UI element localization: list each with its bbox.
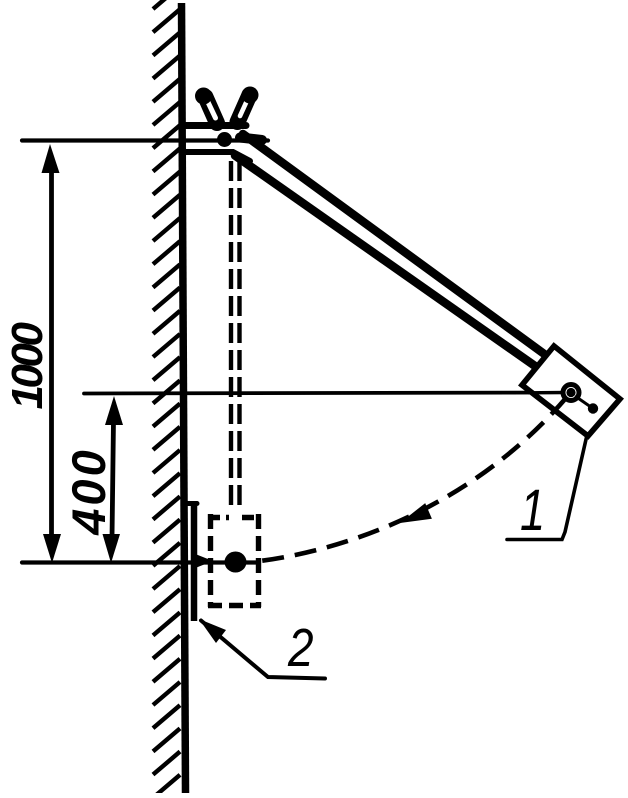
- wall plate top hook: [187, 501, 197, 506]
- arm upper line: [243, 134, 547, 356]
- wall line: [182, 3, 186, 793]
- folded box dashed right edge: [256, 514, 261, 607]
- arc arrowhead: [400, 503, 432, 523]
- wall bracket bottom line: [184, 152, 250, 161]
- folded box dashed bottom edge: [208, 603, 261, 608]
- box pivot circle: [563, 385, 579, 401]
- wall bracket top line: [184, 122, 246, 129]
- wall hatching: [153, 0, 180, 798]
- folded box dashed left edge: [208, 514, 213, 607]
- arrow against plate: [194, 554, 213, 569]
- arrow 400 bottom: [103, 534, 121, 563]
- arrow 1000 bottom: [43, 534, 61, 563]
- arrow 1000 top: [42, 144, 60, 173]
- fork prong right: [238, 87, 259, 123]
- arrow 400 top: [105, 396, 123, 425]
- wall plate item 2: [191, 501, 198, 621]
- arm lower line: [235, 156, 535, 367]
- dimension line 1000: [49, 170, 54, 538]
- folded arm tube dashed right: [237, 161, 241, 509]
- svg-text:1: 1: [520, 479, 545, 544]
- box small dot: [588, 403, 598, 413]
- fork junction stub: [240, 138, 262, 141]
- upper pivot dot: [217, 132, 232, 147]
- folded arm tube dashed left: [229, 161, 233, 509]
- top extension line: [22, 138, 268, 142]
- svg-text:400: 400: [62, 447, 115, 535]
- swivel box: [522, 346, 620, 436]
- middle extension line: [84, 393, 566, 394]
- folded box dashed top edge: [208, 515, 261, 520]
- leader 2 arrowhead: [199, 619, 226, 643]
- leader line 1: [507, 409, 593, 540]
- svg-text:1000: 1000: [3, 322, 52, 410]
- folded pivot dot: [225, 552, 247, 573]
- mid line into box: [528, 391, 566, 395]
- fork prong left: [195, 88, 217, 124]
- box pivot dot: [566, 388, 575, 397]
- bottom extension line: [22, 560, 256, 564]
- swing arc dashed: [260, 398, 566, 561]
- svg-text:2: 2: [287, 618, 314, 678]
- dimension line 400: [112, 420, 114, 538]
- box connector line: [575, 396, 593, 409]
- leader line 2: [201, 621, 325, 679]
